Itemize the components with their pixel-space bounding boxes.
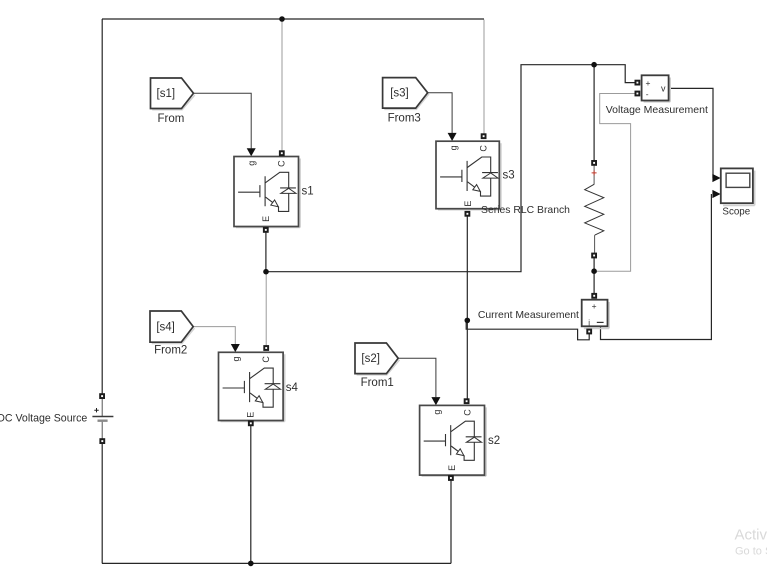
wire: resistor to RLC bottom port [594,235,596,253]
port: RLC bottom [591,253,597,259]
port: s4 C [263,345,269,351]
svg-text:Go to Settings to activate: Go to Settings to activate [735,546,767,558]
svg-text:C: C [462,409,472,416]
svg-text:From: From [157,113,184,125]
svg-text:g: g [432,410,442,415]
wire: From3 tag to s3 gate [428,93,452,133]
svg-text:Scope: Scope [722,207,750,218]
Current Measurement block U_I [582,300,609,329]
junction: bottom rail / s4 E [248,561,254,567]
svg-text:+: + [646,78,651,88]
port: s2 C [464,398,470,404]
wire: s4 emitter to bottom rail [250,426,252,564]
svg-text:-: - [646,89,649,99]
wire: From tag to s1 gate [194,93,252,148]
svg-text:s1: s1 [302,185,314,197]
svg-text:From1: From1 [361,377,394,389]
wire: From2 tag to s4 gate [193,327,235,345]
port: DC source - [99,438,105,444]
DC Voltage Source battery [92,408,113,421]
wire: top rail to s3 collector port [483,20,485,134]
wire: s3 emitter to s2 collector [466,217,468,399]
arrowhead: s1 gate input [247,148,256,156]
IGBT/Diode block s4 [219,352,285,421]
port: s2 E [448,475,454,481]
arrowhead: s2 gate input [431,397,440,405]
arrowhead: s3 gate input [448,133,457,141]
port: s3 E [465,211,471,217]
wire: bottom rail [102,562,451,564]
svg-text:v: v [661,83,666,93]
wire: node A loop to Voltage Measurement plus [266,65,635,272]
port: Voltage Measurement + [635,80,641,86]
IGBT/Diode block s2 [420,405,487,476]
wire: Current Measurement signal to Scope input 2 [601,194,712,340]
wire: s1 emitter to node A [265,232,267,271]
From tag [s2] [355,343,400,375]
junction: RLC bottom / VM minus loop [591,268,597,274]
svg-text:E: E [447,465,457,471]
svg-text:DC Voltage Source: DC Voltage Source [0,413,87,425]
port: s1 E [263,227,269,233]
arrowhead: s4 gate input [231,344,240,352]
svg-text:C: C [261,356,271,363]
wire: DC source internal leads [101,399,103,439]
resistor: Series RLC Branch zigzag [585,184,604,235]
svg-text:[s4]: [s4] [156,322,175,334]
svg-text:+: + [592,301,597,311]
port: s3 C [481,133,487,139]
RLC red polarity plus [592,170,597,175]
port: Voltage Measurement - [635,91,641,97]
svg-text:Current Measurement: Current Measurement [478,310,579,321]
port: RLC top [591,160,597,166]
wire: Voltage Measurement minus loop to RLC bottom node [597,94,636,272]
port: Current Measurement i out [586,329,592,335]
svg-text:From3: From3 [388,113,421,125]
svg-text:Activate Windows: Activate Windows [735,527,767,544]
svg-text:E: E [261,216,271,222]
port: s4 E [248,420,254,426]
wire: s2 emitter to bottom rail [450,481,452,564]
svg-text:C: C [479,145,489,152]
port: s1 C [279,150,285,156]
wire: Current Measurement return to node B [466,321,589,340]
svg-text:E: E [463,201,473,207]
svg-text:[s2]: [s2] [361,353,380,365]
wire: DC source - down to bottom rail [101,444,103,564]
svg-text:s4: s4 [286,382,299,394]
wire: RLC top port to resistor [593,166,595,185]
svg-text:g: g [448,145,458,150]
svg-text:C: C [277,160,287,167]
junction: top loop / RLC top [591,62,597,68]
junction: top rail / s1 C [279,16,285,22]
wire: Voltage Measurement output to Scope input 1 [669,88,713,178]
svg-text:Voltage Measurement: Voltage Measurement [606,104,708,116]
svg-text:i: i [588,318,590,327]
wire: From1 tag to s2 gate [398,358,436,397]
wire: top rail [102,18,484,20]
svg-text:s3: s3 [503,169,515,181]
svg-text:g: g [246,161,256,166]
wire: RLC bottom port to Current Measurement plus [593,258,595,293]
port: Current Measurement + [591,293,597,299]
arrowhead: Scope input 1 [712,174,720,182]
wire: node A to s4 collector port [265,272,267,345]
svg-text:[s3]: [s3] [390,88,409,100]
IGBT/Diode block s1 [234,157,300,228]
IGBT/Diode block s3 [436,141,501,210]
arrowhead: Scope input 2 [712,190,720,198]
svg-text:From2: From2 [154,345,187,357]
junction: node B [465,318,471,324]
svg-text:E: E [246,412,256,418]
From tag [s1] [151,78,195,110]
wire: top rail to s1 collector port [281,20,283,151]
svg-text:[s1]: [s1] [157,88,176,100]
svg-text:s2: s2 [488,435,500,447]
svg-text:g: g [231,356,241,361]
From tag [s3] [383,78,429,110]
wire: node at top loop down to RLC top port [593,65,595,161]
junction: node A [263,269,269,275]
Voltage Measurement block U_V [642,75,671,102]
svg-text:Series RLC Branch: Series RLC Branch [481,205,570,216]
From tag [s4] [150,311,195,344]
Scope block [721,168,755,205]
port: DC source + [99,393,105,399]
wire: left vertical from rail to DC source + [101,19,103,394]
